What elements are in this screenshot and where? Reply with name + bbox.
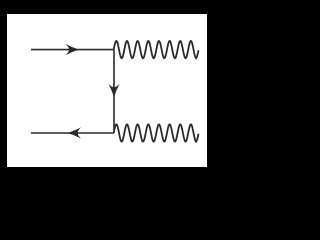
arrowhead on bottom fermion line (pointing left) [67, 127, 81, 138]
arrowhead on vertical propagator (pointing down) [108, 84, 119, 98]
fermion propagator (vertical) [113, 50, 115, 133]
arrowhead on top fermion line (pointing right) [65, 44, 79, 55]
outgoing fermion line (bottom) [31, 132, 114, 134]
photon wavy line (top) [114, 41, 199, 58]
photon wavy line (bottom) [114, 124, 199, 141]
incoming fermion line (top) [31, 49, 114, 51]
white figure panel [7, 14, 207, 167]
